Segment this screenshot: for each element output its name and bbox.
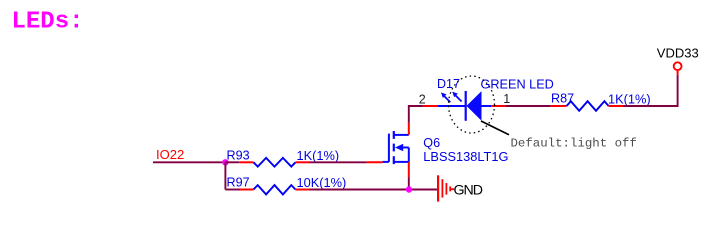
svg-text:R97: R97 [227,176,250,190]
svg-text:10K(1%): 10K(1%) [297,175,347,190]
wire junction down to R97 branch [224,162,226,189]
svg-text:D17: D17 [437,77,460,91]
pin red drain stub [408,123,410,135]
annotation dashed ellipse [449,76,495,133]
pin number 1 [503,92,510,106]
svg-text:Q6: Q6 [423,136,440,150]
power symbol VDD33 [657,45,699,74]
wire junction to R93 pin1 [225,161,239,163]
resistor R97 [225,175,346,194]
svg-text:Default:light off: Default:light off [511,136,637,150]
svg-text:1K(1%): 1K(1%) [608,91,651,106]
wire R97 to GND line [310,189,438,191]
node junction J2 [406,186,412,192]
diode D17 green LED [423,77,554,121]
wire R87 to VDD33 [623,75,678,106]
svg-text:LEDs:: LEDs: [12,9,84,36]
net label IO22 [156,147,184,162]
wire LED anode to R87 [506,105,551,107]
wire IO22 to junction [153,161,225,163]
title text LEDs: [12,9,84,36]
svg-text:GND: GND [454,182,483,198]
pin number 2 [419,93,426,107]
wire source to GND line [408,178,410,190]
wire drain up to LED line [409,106,423,123]
svg-text:GREEN LED: GREEN LED [481,78,554,92]
svg-text:1K(1%): 1K(1%) [297,148,340,163]
transistor Q6 NMOS [383,131,509,164]
node junction J1 [222,159,228,165]
annotation pointer line [481,121,509,135]
svg-text:2: 2 [419,93,426,107]
ground GND [438,175,483,201]
pin red source stub [408,162,410,178]
svg-text:IO22: IO22 [156,147,184,162]
svg-text:VDD33: VDD33 [657,45,699,60]
annotation text Default:light off [511,136,637,150]
resistor R93 [227,148,340,167]
wire R93 to Q6 gate [310,161,367,163]
svg-text:1: 1 [503,92,510,106]
pin red gate stub [367,161,383,163]
svg-text:R93: R93 [227,148,250,162]
svg-text:LBSS138LT1G: LBSS138LT1G [423,149,508,164]
svg-text:R87: R87 [551,92,574,106]
resistor R87 [551,91,651,111]
